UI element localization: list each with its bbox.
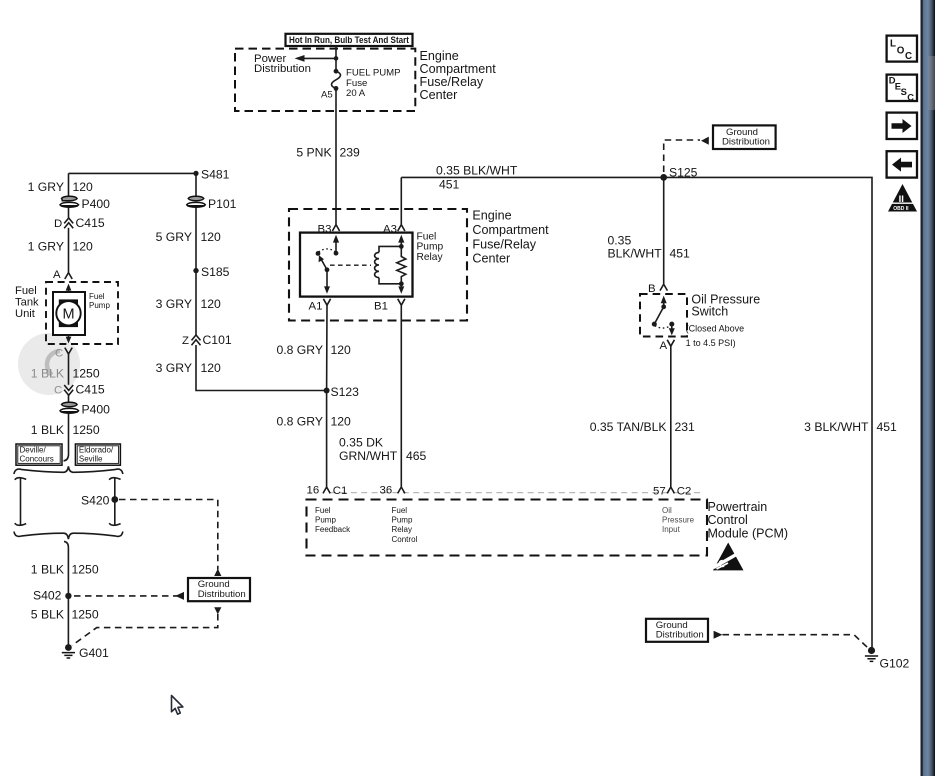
svg-text:0.35 BLK/WHT: 0.35 BLK/WHT [436, 164, 518, 178]
pin B oil pressure switch [660, 284, 667, 290]
wire S481 to P101 [195, 197, 197, 199]
wire S185 to C101 [195, 271, 197, 335]
svg-text:S125: S125 [669, 165, 698, 179]
node junction above fuse [334, 56, 339, 61]
mouse cursor [172, 696, 183, 715]
oil switch arm [652, 307, 664, 327]
Eldorado/Seville tag box [75, 444, 120, 465]
wire oil switch A to PCM pin 57 (0.35 TAN/BLK 231) [670, 346, 672, 487]
oil switch internal arrow up [661, 296, 667, 310]
svg-text:A5: A5 [321, 90, 333, 101]
svg-text:1 BLK: 1 BLK [31, 423, 64, 437]
button next (right arrow) [887, 113, 917, 139]
svg-text:120: 120 [201, 361, 222, 375]
svg-text:120: 120 [73, 180, 94, 194]
wire C101 to S123 [196, 345, 325, 391]
svg-text:A1: A1 [309, 300, 323, 312]
svg-text:G401: G401 [79, 646, 109, 660]
wire to Power Distribution (arrow left) [303, 57, 336, 59]
node S402 [65, 593, 71, 599]
dashed wire S125 to ground distribution (top) [664, 140, 700, 172]
button prev (left arrow) [887, 151, 917, 177]
svg-text:120: 120 [201, 297, 222, 311]
svg-text:C: C [907, 91, 914, 102]
PCM dashed box [307, 500, 708, 556]
node S185 [193, 268, 198, 273]
wire fuse to relay pin B3 (5 PNK 239) [335, 88, 337, 224]
svg-text:A: A [53, 269, 61, 281]
svg-text:16: 16 [307, 484, 320, 496]
svg-text:S185: S185 [201, 265, 230, 279]
svg-text:3 GRY: 3 GRY [156, 297, 192, 311]
fuel tank unit dashed box [46, 282, 118, 344]
wire from Hot In Run box to fuse [335, 46, 337, 72]
faint connector row line [330, 492, 700, 494]
fuse FUEL PUMP 20A [332, 69, 341, 91]
connector C415 pin C (double chevron down) [64, 385, 73, 395]
relay switch dotted arc [319, 249, 336, 252]
wire P400 to C415 [68, 208, 70, 218]
arrowhead right (G102 route) [714, 631, 723, 639]
svg-text:1 BLK: 1 BLK [31, 366, 64, 380]
svg-text:1250: 1250 [72, 563, 99, 577]
svg-text:M: M [62, 306, 74, 322]
wire down-left from S481 [68, 173, 70, 198]
svg-text:451: 451 [670, 247, 691, 261]
svg-text:C415: C415 [76, 383, 105, 397]
brace top (splice spread) [14, 466, 123, 474]
Deville/Concours tag box [16, 444, 62, 465]
svg-text:120: 120 [331, 343, 352, 357]
relay dashed box (engine compartment fuse/relay center) [289, 209, 467, 321]
svg-text:C1: C1 [333, 485, 348, 497]
wire C415 to P400 (lower) [68, 395, 70, 402]
svg-text:231: 231 [675, 420, 696, 434]
svg-text:D: D [54, 218, 62, 230]
svg-text:3 GRY: 3 GRY [156, 361, 192, 375]
node S420 [111, 496, 118, 503]
svg-text:0.35 TAN/BLK: 0.35 TAN/BLK [590, 420, 667, 434]
connector C101 pin Z (double chevron) [192, 335, 201, 345]
svg-text:C: C [55, 347, 63, 359]
node S123 [324, 388, 330, 394]
left branch bar [15, 478, 26, 526]
svg-text:120: 120 [201, 230, 222, 244]
oil pressure switch dashed box [640, 294, 687, 337]
svg-text:S420: S420 [81, 493, 110, 507]
svg-text:II: II [899, 194, 904, 205]
connector P400 (upper) [60, 196, 79, 207]
connector P400 (lower) [60, 402, 79, 413]
relay linkage dashed [330, 264, 371, 266]
svg-text:3 BLK/WHT: 3 BLK/WHT [804, 420, 869, 434]
ground G401 [62, 644, 75, 658]
dashed wire S402 to ground distribution [74, 595, 184, 597]
svg-text:57: 57 [653, 486, 666, 498]
svg-text:C2: C2 [677, 486, 692, 498]
svg-text:Z: Z [182, 335, 189, 347]
dashed wire ground distribution to G401 [72, 614, 218, 646]
arrow into fuel pump [66, 284, 72, 292]
fuel pump relay solid box [300, 233, 413, 297]
svg-text:5 GRY: 5 GRY [156, 230, 192, 244]
wire S125 to oil pressure switch pin B [663, 177, 665, 284]
pin B3 [332, 225, 339, 231]
svg-text:1 GRY: 1 GRY [28, 239, 64, 253]
dashed wire ground distribution to G102 [723, 635, 869, 648]
svg-text:B1: B1 [374, 300, 388, 312]
arrowhead power distribution [295, 55, 305, 62]
svg-text:0.8 GRY: 0.8 GRY [276, 414, 323, 428]
svg-text:0.8 GRY: 0.8 GRY [276, 343, 323, 357]
451 ground rail horizontal wire [401, 177, 872, 648]
svg-text:S: S [901, 86, 907, 97]
ESD warning symbol [713, 543, 744, 571]
svg-text:C415: C415 [76, 216, 105, 230]
oil switch output contact arrow down [669, 322, 675, 336]
svg-text:O: O [897, 46, 905, 57]
svg-text:A: A [660, 340, 668, 352]
Ground Distribution box (bottom right) [646, 619, 708, 642]
svg-text:Hot In Run, Bulb Test And Star: Hot In Run, Bulb Test And Start [289, 35, 409, 45]
wire B1 to PCM pin 36 (0.35 DK GRN/WHT 465) [400, 305, 402, 487]
node S481 [193, 171, 198, 176]
node S420 dashed route to ground distribution (bottom left) [119, 500, 218, 570]
svg-text:5 BLK: 5 BLK [31, 607, 64, 621]
engine compartment fuse/relay center dashed box (top) [235, 49, 415, 111]
pin A1 [323, 299, 330, 305]
connector C415 pin D (double chevron) [64, 218, 73, 228]
svg-text:OBD II: OBD II [893, 206, 909, 212]
pin B1 [398, 299, 405, 305]
pin C of fuel tank unit [65, 348, 72, 354]
wire pump to C415 [68, 354, 70, 385]
svg-text:P400: P400 [82, 197, 111, 211]
relay B1 internal arrow [398, 284, 404, 294]
svg-text:G102: G102 [880, 656, 910, 670]
arrowhead down (G401 route) [214, 607, 221, 614]
relay switch common contact [316, 251, 321, 256]
pin A of fuel tank unit [65, 273, 72, 279]
relay resistor [397, 246, 406, 283]
fuel pump motor M [53, 292, 85, 335]
svg-text:S402: S402 [33, 589, 62, 603]
svg-text:451: 451 [439, 178, 460, 192]
button DESC [887, 75, 917, 103]
svg-text:465: 465 [406, 449, 427, 463]
ground G102 [865, 647, 878, 662]
S481 tee wire [69, 173, 197, 198]
pin 57 C2 [667, 487, 674, 493]
pin 36 [398, 487, 405, 493]
wire A3 up to 451 rail [400, 177, 402, 224]
svg-text:P101: P101 [208, 197, 237, 211]
svg-text:1250: 1250 [73, 366, 100, 380]
wire merge to S402 and G401 [64, 541, 68, 646]
svg-text:120: 120 [331, 414, 352, 428]
pin 16 C1 [323, 487, 330, 493]
wire P101 to S185 [195, 208, 197, 271]
svg-text:1250: 1250 [72, 607, 99, 621]
svg-text:C: C [54, 385, 62, 397]
arrowhead left (S402 route) [175, 592, 184, 600]
relay coil top node [399, 244, 404, 249]
pin A3 [398, 225, 405, 231]
svg-text:C: C [905, 51, 912, 62]
svg-text:451: 451 [877, 420, 898, 434]
Hot In Run label box [286, 34, 413, 46]
arrow out of fuel pump [66, 335, 72, 343]
OBD II warning triangle button [888, 184, 917, 212]
relay coil [375, 246, 402, 283]
Ground Distribution box (bottom left) [188, 578, 250, 601]
wire P400 to model split [64, 414, 69, 461]
button LOC [887, 36, 917, 62]
relay A1 internal arrow [324, 270, 330, 294]
svg-text:239: 239 [340, 146, 361, 160]
relay switch arm with arrowhead [319, 255, 330, 272]
wire A1 to S123 to PCM pin 16 (0.8 GRY 120) [326, 305, 328, 487]
svg-text:1250: 1250 [73, 423, 100, 437]
Ground Distribution box (top right) [713, 125, 776, 149]
svg-text:S123: S123 [331, 385, 360, 399]
svg-text:L: L [890, 39, 896, 50]
window scrollbar bar [921, 0, 935, 776]
arrowhead to ground distribution (top) [701, 137, 709, 145]
svg-text:S481: S481 [201, 168, 230, 182]
wire C415 to fuel tank unit [68, 228, 70, 272]
svg-text:120: 120 [73, 239, 94, 253]
node S125 [660, 174, 667, 181]
svg-text:C101: C101 [203, 333, 232, 347]
relay A3 internal arrow [398, 235, 404, 247]
svg-text:P400: P400 [82, 403, 111, 417]
pin A oil pressure switch [667, 340, 674, 346]
connector P101 [187, 196, 206, 207]
arrowhead up (S420 route) [214, 569, 221, 576]
brace bottom (splice merge) [14, 532, 123, 540]
svg-text:1 GRY: 1 GRY [28, 180, 64, 194]
right branch bar [109, 478, 120, 526]
svg-text:36: 36 [380, 484, 393, 496]
relay B3 internal arrow [333, 235, 339, 256]
svg-text:1 BLK: 1 BLK [31, 563, 64, 577]
watermark circle [18, 333, 80, 395]
relay coil bottom node [399, 281, 404, 286]
svg-text:5 PNK: 5 PNK [296, 146, 331, 160]
oil switch dotted arc [655, 325, 672, 328]
